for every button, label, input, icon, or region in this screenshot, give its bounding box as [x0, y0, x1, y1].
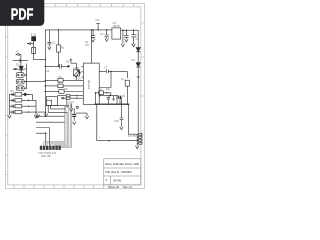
svg-text:LDR: LDR — [74, 66, 79, 70]
ground — [44, 112, 47, 117]
ground — [132, 44, 135, 47]
crystal Y1 — [96, 92, 111, 94]
diode D4 — [136, 63, 140, 67]
ground — [48, 47, 51, 50]
svg-text:P1: P1 — [11, 89, 15, 93]
wire U2 supply — [91, 30, 93, 63]
U2 right pin wire + capacitor C7 — [99, 70, 111, 88]
row2 — [10, 99, 16, 102]
svg-text:R1: R1 — [61, 46, 65, 50]
regulator U3 — [112, 28, 121, 39]
row1: cap + resistor — [10, 93, 16, 96]
svg-text:C7: C7 — [104, 66, 108, 70]
schematic ink — [8, 24, 142, 149]
connector K4 box — [46, 97, 57, 106]
svg-text:D1: D1 — [16, 62, 20, 66]
capacitor C2 — [91, 30, 95, 39]
svg-text:GF 5%: GF 5% — [113, 178, 122, 182]
svg-text:Sheet 1/1: Sheet 1/1 — [108, 185, 120, 189]
svg-text:C3: C3 — [100, 32, 104, 36]
ground — [125, 39, 128, 42]
wire gnd stub — [122, 30, 124, 43]
wire right vertical — [137, 30, 139, 132]
frame zone ticks right — [141, 23, 145, 135]
row3 — [10, 105, 16, 108]
svg-text:R7: R7 — [121, 78, 125, 82]
svg-text:MEGA8: MEGA8 — [87, 80, 91, 90]
svg-text:10n: 10n — [85, 43, 90, 47]
svg-text:5 3A: 5 3A — [31, 33, 37, 37]
svg-text:22p: 22p — [106, 87, 111, 91]
node circle — [76, 106, 78, 108]
svg-text:R6: R6 — [65, 87, 69, 91]
wires lower-left routing — [36, 116, 65, 122]
resistor R10 row — [61, 97, 66, 99]
tiny grey labels — [11, 18, 140, 158]
power flag left — [27, 41, 33, 60]
row4 — [10, 111, 16, 114]
svg-text:Doc 1.2: Doc 1.2 — [123, 185, 132, 189]
resistor R9 row — [58, 95, 67, 97]
wire xtal row2 — [99, 95, 117, 97]
capacitor C3 — [105, 30, 109, 39]
capacitor C6 — [13, 59, 28, 63]
U2 left pins — [82, 66, 84, 77]
resistor R2 — [32, 47, 36, 53]
capacitor C5 — [131, 30, 135, 44]
capacitor C13 polarized + ground — [73, 109, 75, 114]
svg-text:CN 750: CN 750 — [128, 134, 137, 138]
wire mid node — [45, 64, 65, 69]
capacitor C9 — [119, 95, 121, 104]
capacitor C9 — [117, 96, 122, 104]
power flag +5V — [96, 24, 100, 30]
ground — [34, 113, 37, 118]
frame zone ticks top — [55, 4, 133, 7]
resistor R7 — [125, 80, 129, 86]
plus stub — [70, 59, 77, 70]
wire left vertical bus — [44, 30, 46, 116]
wire — [96, 93, 118, 104]
capacitor C8 — [107, 96, 110, 105]
svg-text:AV: AV — [66, 60, 70, 64]
svg-text:PDF: PDF — [11, 6, 34, 23]
resistor R5 row — [45, 85, 58, 87]
ground — [91, 39, 94, 42]
wire — [34, 59, 46, 61]
ribbon bus — [44, 103, 72, 147]
svg-text:C1: C1 — [52, 41, 56, 45]
wire main +5V bus — [45, 29, 138, 31]
svg-text:C10: C10 — [114, 119, 119, 123]
ground ladder left — [8, 112, 11, 118]
power flag 2 — [16, 54, 21, 66]
svg-text:R4: R4 — [59, 75, 63, 79]
opto/relay K1 — [16, 73, 24, 78]
sheet border frame — [5, 4, 144, 189]
title block — [104, 159, 141, 185]
svg-text:Name: Schematic Circuit - 2006: Name: Schematic Circuit - 2006 — [105, 162, 139, 166]
svg-text:U1: U1 — [46, 69, 50, 73]
wire — [76, 113, 89, 119]
opto/relay K2 — [16, 79, 24, 84]
svg-text:+5V: +5V — [95, 18, 100, 22]
PDF badge — [0, 0, 44, 26]
svg-text:C9: C9 — [122, 94, 126, 98]
tick node — [137, 76, 140, 78]
svg-text:Title: Rev 5i - 230 MHz: Title: Rev 5i - 230 MHz — [105, 170, 132, 174]
wire to R7 — [111, 71, 127, 78]
capacitor C12 + ground — [65, 99, 69, 107]
gnd bus thick — [95, 103, 130, 105]
resistor R1 — [57, 30, 59, 66]
net arrow — [66, 65, 70, 67]
svg-text:AVR ISP: AVR ISP — [41, 154, 51, 158]
diamond D2 — [24, 93, 27, 96]
wire to CN — [128, 104, 138, 134]
junction dots — [26, 29, 139, 141]
IC U2 — [83, 63, 99, 104]
diode D1 — [19, 66, 23, 70]
ribbon staircase — [48, 105, 67, 112]
svg-text:78L05: 78L05 — [113, 24, 121, 28]
svg-text:R5: R5 — [59, 80, 63, 84]
svg-text:C12: C12 — [69, 100, 74, 104]
connector CN1 pins — [139, 133, 143, 135]
LDR R3 — [74, 70, 80, 76]
svg-text:D3: D3 — [132, 43, 136, 47]
fuse F1 — [32, 37, 36, 41]
stub arrow below row — [112, 96, 114, 101]
resistor R4 row — [45, 79, 58, 81]
wire long to CN pin3 — [97, 104, 139, 140]
wire oval chain — [13, 64, 45, 89]
oval terminals — [18, 74, 20, 76]
capacitor C4 — [124, 30, 128, 39]
svg-text:D4: D4 — [132, 58, 136, 62]
ladder collect verticals — [33, 94, 47, 113]
ground — [105, 38, 108, 41]
ground — [136, 146, 139, 149]
connector J1 body — [40, 146, 61, 150]
grounds mid-left pair — [36, 114, 39, 118]
svg-text:7: 7 — [106, 179, 108, 183]
frame zone ticks left — [5, 37, 7, 175]
capacitor C1 — [47, 30, 51, 47]
frame zone ticks bottom — [14, 185, 104, 189]
opto/relay K3 — [16, 86, 24, 91]
RC ladder feed — [9, 94, 11, 112]
svg-text:Y1: Y1 — [99, 87, 103, 91]
resistor R6 row — [45, 91, 59, 93]
capacitor C10 + ground — [120, 104, 124, 127]
diode D3 — [136, 48, 140, 52]
ground — [121, 44, 124, 47]
